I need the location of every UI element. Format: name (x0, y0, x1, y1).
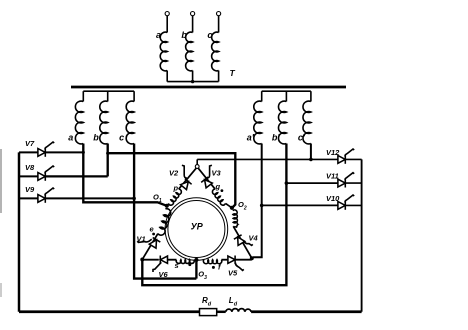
wire f to V5 (221, 259, 227, 261)
svg-text:a: a (156, 30, 161, 40)
gate V2 (182, 165, 187, 178)
junction c'-V12 wire (309, 158, 313, 162)
thyristor V7 (38, 149, 45, 157)
right dc bus (361, 159, 363, 311)
svg-text:g: g (215, 182, 221, 191)
junction V7-a (82, 151, 85, 154)
right secondary star wire (262, 90, 311, 92)
machine UR outer circle (165, 198, 228, 261)
wire c' down (310, 144, 312, 160)
svg-text:b': b' (272, 133, 280, 143)
svg-text:V3: V3 (212, 169, 222, 178)
wire V7 cathode to winding a (45, 151, 83, 153)
machine bottom wire left (142, 259, 159, 261)
svg-text:a: a (68, 133, 73, 143)
wire V11 cathode (345, 182, 361, 184)
svg-text:V12: V12 (326, 148, 340, 157)
thyristor V9 (38, 195, 45, 203)
thyristor V2 (181, 182, 189, 190)
wire V4 diagonal (233, 226, 252, 258)
wire V10 cathode (345, 204, 361, 206)
wire V9 anode (19, 197, 38, 199)
svg-text:V4: V4 (249, 234, 259, 243)
secondary winding b' (right group) (285, 91, 287, 101)
left secondary star wire (83, 90, 134, 92)
wire V2 diagonal (179, 168, 197, 189)
svg-text:V5: V5 (228, 268, 238, 277)
bottom dc wire right (251, 310, 362, 313)
machine winding p (168, 189, 181, 205)
svg-text:a': a' (247, 133, 255, 143)
left dc bus (18, 152, 20, 311)
svg-text:c: c (207, 30, 212, 40)
wire V8 cathode to winding b (45, 175, 107, 177)
wire V11 to b' (286, 182, 338, 184)
thyristor V5 (228, 256, 235, 263)
gate V1 (137, 239, 152, 242)
svg-text:Ld: Ld (229, 296, 238, 308)
bottom dc wire left (19, 310, 200, 313)
svg-text:c: c (119, 133, 124, 143)
thyristor V10 (338, 202, 345, 210)
wire V7 anode (19, 151, 38, 153)
svg-text:V9: V9 (25, 185, 35, 194)
node O3 (194, 258, 198, 262)
svg-text:Rd: Rd (202, 296, 212, 308)
node O2 (230, 206, 234, 210)
machine winding g (212, 189, 225, 205)
svg-text:c': c' (298, 133, 306, 143)
wire Rd-Ld (217, 311, 226, 313)
wire winding b down (107, 144, 109, 177)
svg-text:V1: V1 (137, 235, 146, 244)
wire a' to bottom-right vertex (253, 144, 262, 258)
svg-text:V6: V6 (159, 270, 169, 279)
svg-text:e: e (150, 225, 154, 234)
thyristor V12 (338, 156, 345, 164)
wire g to O2 (226, 203, 232, 207)
transformer core (71, 86, 346, 89)
wire V3 diagonal (198, 168, 215, 189)
secondary winding b (left group) (107, 91, 109, 101)
machine UR inner circle (168, 201, 225, 258)
scan artifact (0, 149, 2, 213)
wire node O3 down (195, 260, 197, 279)
wire machine top to V12 (197, 158, 338, 160)
junction V9-c (132, 197, 136, 201)
machine winding f (203, 260, 221, 264)
secondary winding c' (right group) (310, 91, 312, 101)
thyristor V3 (205, 180, 213, 188)
thyristor V4 (238, 237, 245, 245)
svg-text:O2: O2 (238, 200, 247, 212)
svg-text:b: b (181, 30, 187, 40)
wire winding c to node O3 (134, 144, 196, 279)
gate V4 (244, 241, 253, 246)
machine winding s (176, 260, 194, 264)
apex terminal (195, 165, 199, 169)
transformer T primary winding c (217, 12, 221, 16)
svg-text:V11: V11 (326, 172, 339, 181)
primary neutral wire (167, 81, 218, 83)
inductor Ld (226, 309, 251, 312)
svg-text:V7: V7 (25, 139, 35, 148)
polarity dot e (152, 233, 155, 236)
wire V9 cathode to winding c (45, 197, 134, 199)
svg-text:V8: V8 (25, 163, 35, 172)
machine bottom wire right (235, 259, 252, 261)
junction bottom-left vertex (140, 258, 144, 262)
polarity dot g (221, 189, 224, 192)
svg-text:УР: УР (191, 222, 204, 232)
machine winding e (158, 209, 171, 236)
wire V12 cathode (345, 158, 361, 160)
secondary winding a' (right group) (261, 91, 263, 101)
wire apex up (196, 159, 198, 164)
junction Wb-b (106, 152, 109, 155)
wire V6 to s (167, 259, 177, 261)
junction V11-b' (285, 181, 289, 185)
svg-text:s: s (175, 261, 179, 270)
wire V1 diagonal (142, 234, 158, 260)
machine winding r (233, 210, 238, 227)
thyristor V6 (160, 256, 167, 263)
secondary winding a (left group) (82, 91, 84, 101)
polarity dot s (188, 263, 191, 266)
svg-text:T: T (230, 68, 236, 78)
wire V8 anode (19, 175, 38, 177)
junction primary neutral (191, 80, 194, 83)
svg-text:V10: V10 (326, 194, 340, 203)
polarity dot f (212, 266, 215, 269)
transformer T primary winding a (165, 12, 169, 16)
gate V3 (207, 165, 212, 178)
svg-text:b: b (93, 133, 99, 143)
thyristor V1 (149, 240, 156, 248)
thyristor V11 (338, 179, 345, 187)
wire b' to bottom-left vertex (142, 144, 286, 286)
svg-text:V2: V2 (169, 169, 179, 178)
wire winding a to node O1 (83, 144, 167, 206)
secondary winding c (left group) (133, 91, 135, 101)
svg-text:O3: O3 (198, 269, 207, 281)
wire winding b to node O2 (top route) (108, 153, 236, 208)
wire V10 to a' (262, 204, 339, 206)
svg-text:p: p (173, 184, 179, 193)
junction bottom-right vertex (250, 256, 254, 260)
resistor Rd (200, 309, 217, 316)
node O1 (165, 204, 169, 208)
thyristor V8 (38, 173, 45, 181)
transformer T primary winding b (191, 12, 195, 16)
svg-text:r: r (236, 221, 240, 230)
junction V10-a' (260, 204, 264, 208)
